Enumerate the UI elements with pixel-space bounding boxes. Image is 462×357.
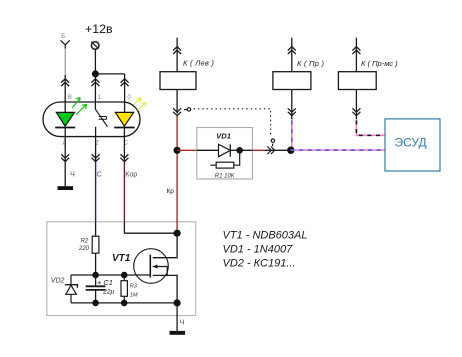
wire middle column down to oval pin 1 — [94, 74, 96, 109]
wire Ч black down to ground — [64, 162, 66, 186]
node gate-R2 junction — [92, 272, 99, 279]
wire С blue — [95, 162, 97, 222]
diode VD1 — [219, 144, 231, 156]
wire R2 to gate node — [95, 253, 97, 275]
wire below relay K(Лев) — [176, 90, 178, 114]
ЭСУД ECU box — [385, 119, 440, 171]
connector chevrons down on relay K(Пр) column — [288, 108, 296, 115]
MOSFET arrow head — [153, 265, 158, 269]
resistor R2 — [92, 236, 99, 253]
svg-text:VD2 - КС191...: VD2 - КС191... — [223, 258, 296, 270]
wire below relay K(Пр-мс) — [355, 90, 357, 120]
connector chevrons up on column 1 — [91, 79, 99, 86]
wire into diode — [197, 149, 219, 151]
connector chevrons up on Б column — [61, 79, 69, 86]
lamp cluster connector oval — [43, 102, 140, 137]
resistor R3 — [121, 275, 127, 303]
node gate-R3 junction — [121, 272, 128, 279]
relay K(Пр) coil box — [273, 72, 311, 90]
wire horizontal from junction to right column — [95, 73, 124, 75]
wire source to ground — [176, 303, 178, 331]
capacitor C1 — [86, 275, 106, 303]
wire pin C inside oval — [123, 128, 125, 163]
node source junction — [174, 299, 181, 306]
svg-text:+ С1: + С1 — [97, 278, 113, 287]
connector chevrons right on wire — [267, 147, 274, 155]
svg-text:В: В — [68, 95, 72, 101]
svg-text:К ( Пр ): К ( Пр ) — [297, 59, 325, 68]
node junction left (red bus) — [174, 147, 181, 154]
green LED HL1 — [55, 112, 75, 127]
wire right column down to oval pin 0 — [124, 74, 126, 113]
connector chevrons up on relay K(Пр) column — [288, 47, 296, 54]
node drain junction — [174, 230, 181, 237]
connector chevrons down on A column — [61, 154, 69, 161]
dotted jumper curl left — [184, 108, 191, 111]
wire pink-blue horizontal to ЭСУД — [291, 149, 386, 151]
svg-text:VD1: VD1 — [216, 131, 231, 140]
connector chevrons down on relay K(Пр-мс) column — [352, 108, 360, 115]
wire black Б column to oval — [64, 75, 66, 112]
wire Кр red vertical — [176, 116, 178, 234]
node junction right (to ЭСУД) — [287, 147, 294, 154]
wire pin A inside oval — [64, 128, 66, 163]
wire from +12в terminal down — [94, 49, 96, 74]
wire to relay K(Пр) — [291, 38, 293, 72]
MOSFET VT1 — [134, 233, 177, 303]
svg-text:С: С — [97, 171, 102, 178]
wire black to junction — [265, 149, 291, 151]
svg-text:R3: R3 — [130, 283, 138, 289]
svg-text:К ( Лев ): К ( Лев ) — [183, 59, 214, 68]
svg-text:Кр: Кр — [167, 188, 175, 195]
resistor R1 branch — [210, 150, 239, 168]
thermal switch inside oval (pins 1-2) — [95, 109, 107, 127]
component module gray box — [47, 222, 196, 316]
node C1 bottom — [92, 300, 99, 307]
svg-text:Кор: Кор — [125, 171, 137, 178]
wire pink-blue vertical from K(Пр) — [291, 119, 293, 150]
svg-text:Б: Б — [61, 34, 65, 40]
wire Кор black inside box to drain node — [124, 222, 176, 233]
wire from diode cathode — [230, 149, 252, 151]
wire to relay K(Пр-мс) — [355, 38, 357, 72]
wire gray from Б down — [64, 49, 66, 76]
svg-text:22μ: 22μ — [102, 289, 115, 296]
svg-text:ЭСУД: ЭСУД — [395, 136, 427, 150]
terminal circle with slash — [91, 42, 99, 50]
svg-text:VT1: VT1 — [112, 253, 131, 264]
wire below relay K(Пр) — [291, 90, 293, 120]
svg-text:220: 220 — [78, 246, 90, 252]
svg-text:Ч: Ч — [70, 171, 75, 178]
svg-text:R2: R2 — [81, 238, 89, 244]
connector chevrons down on relay K(Лев) column — [173, 108, 181, 115]
connector chevrons up on relay K(Пр-мс) column — [352, 47, 360, 54]
dotted jumper curl right — [271, 139, 274, 146]
wire red to VD1 box — [177, 149, 197, 151]
connector chevrons down on C column — [120, 154, 128, 161]
wire pink-black from K(Пр-мс) to ЭСУД — [356, 119, 385, 135]
source row wire — [71, 302, 177, 304]
relay K(Лев) coil box — [160, 72, 196, 90]
connector chevrons up on relay K(Лев) column — [173, 47, 181, 54]
ground bar bottom — [170, 331, 186, 335]
green LED emission arrows — [72, 98, 86, 115]
connector chevrons up on column 0 — [121, 79, 129, 86]
svg-text:R1 10К: R1 10К — [215, 174, 235, 180]
svg-text:VT1 - NDB603AL: VT1 - NDB603AL — [223, 229, 308, 241]
gate row wire — [71, 274, 150, 276]
svg-text:Ч: Ч — [180, 319, 185, 326]
wire С black into box — [95, 222, 97, 236]
svg-text:+12в: +12в — [85, 22, 113, 36]
connector chevrons down on column 2 — [92, 154, 100, 161]
node junction after diode — [236, 147, 243, 154]
wire Кор brown — [123, 162, 125, 222]
VD1 module box — [197, 128, 253, 180]
svg-text:VD1 - 1N4007: VD1 - 1N4007 — [223, 243, 294, 255]
yellow LED emission arrows — [134, 98, 147, 110]
svg-text:1М: 1М — [130, 293, 138, 299]
zener VD2 — [65, 275, 78, 303]
dotted jumper line — [194, 109, 271, 137]
svg-text:К ( Пр-мс ): К ( Пр-мс ) — [361, 59, 398, 68]
wire red after box — [252, 149, 264, 151]
relay K(Пр-мс) coil box — [338, 72, 376, 90]
junction dot at +12в split — [92, 70, 99, 77]
wire pin 2 down — [95, 127, 97, 162]
ground bar left — [58, 186, 74, 190]
wire to relay K(Лев) — [176, 38, 178, 72]
node Б connector terminal — [61, 40, 70, 48]
node R3 bottom — [121, 300, 128, 307]
svg-text:VD2: VD2 — [51, 277, 65, 284]
yellow LED HL2 — [114, 112, 134, 127]
